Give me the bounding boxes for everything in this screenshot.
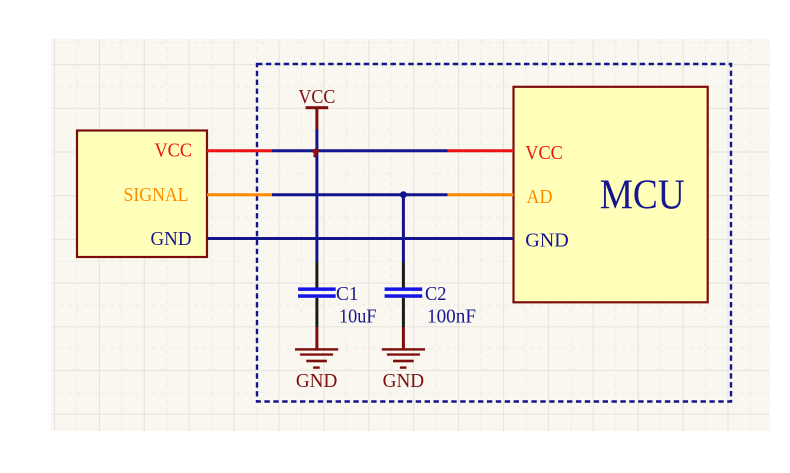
svg-text:GND: GND xyxy=(296,370,338,392)
svg-text:VCC: VCC xyxy=(525,143,563,164)
svg-text:GND: GND xyxy=(151,229,192,250)
power symbol VCC: maroon vertical stub xyxy=(315,109,318,130)
capacitor C2 top pin (black) xyxy=(402,262,405,288)
svg-text:GND: GND xyxy=(383,370,425,392)
power symbol VCC (bar) xyxy=(306,106,329,109)
MCU component box U1 xyxy=(514,87,708,302)
wire C1 to ground (maroon) xyxy=(315,327,318,349)
sensor box (left component) xyxy=(77,131,207,258)
svg-text:VCC: VCC xyxy=(298,87,335,108)
capacitor C1 top pin (black) xyxy=(315,262,318,288)
svg-text:100nF: 100nF xyxy=(427,307,476,328)
ground symbol under C2 xyxy=(382,348,425,369)
svg-text:MCU: MCU xyxy=(600,172,685,219)
svg-text:10uF: 10uF xyxy=(339,307,377,328)
wire GND net: navy horizontal xyxy=(207,237,514,240)
capacitor C1 plates xyxy=(298,287,336,297)
wire SIGNAL/AD net: orange stub to MCU xyxy=(448,193,514,196)
ground symbol under C1 xyxy=(295,348,338,369)
junction dot on AD net at C2 xyxy=(400,191,407,198)
grid background xyxy=(51,39,770,431)
wire SIGNAL/AD net: navy middle segment xyxy=(272,193,448,196)
svg-text:GND: GND xyxy=(525,231,569,252)
capacitor C2 plates xyxy=(385,287,423,297)
capacitor C1 bottom pin (black) xyxy=(315,298,318,327)
svg-text:C2: C2 xyxy=(425,283,447,305)
wire VCC vertical to C1 (navy) xyxy=(315,130,318,263)
wire SIGNAL/AD net: orange stub from sensor xyxy=(207,193,272,196)
capacitor C2 bottom pin (black) xyxy=(402,298,405,327)
junction (dark red) at VCC vertical crossing xyxy=(312,148,320,158)
dashed module boundary box xyxy=(257,64,731,402)
wire C2 to ground (maroon) xyxy=(402,327,405,349)
wire VCC net: red stub from sensor xyxy=(207,149,272,152)
svg-text:SIGNAL: SIGNAL xyxy=(124,185,189,206)
wire AD vertical to C2 (navy) xyxy=(402,195,405,262)
svg-text:VCC: VCC xyxy=(155,141,193,162)
wire VCC net: red stub to MCU xyxy=(448,149,514,152)
wire VCC net: navy middle segment xyxy=(272,149,448,152)
svg-text:C1: C1 xyxy=(336,283,359,305)
svg-text:AD: AD xyxy=(527,187,553,208)
